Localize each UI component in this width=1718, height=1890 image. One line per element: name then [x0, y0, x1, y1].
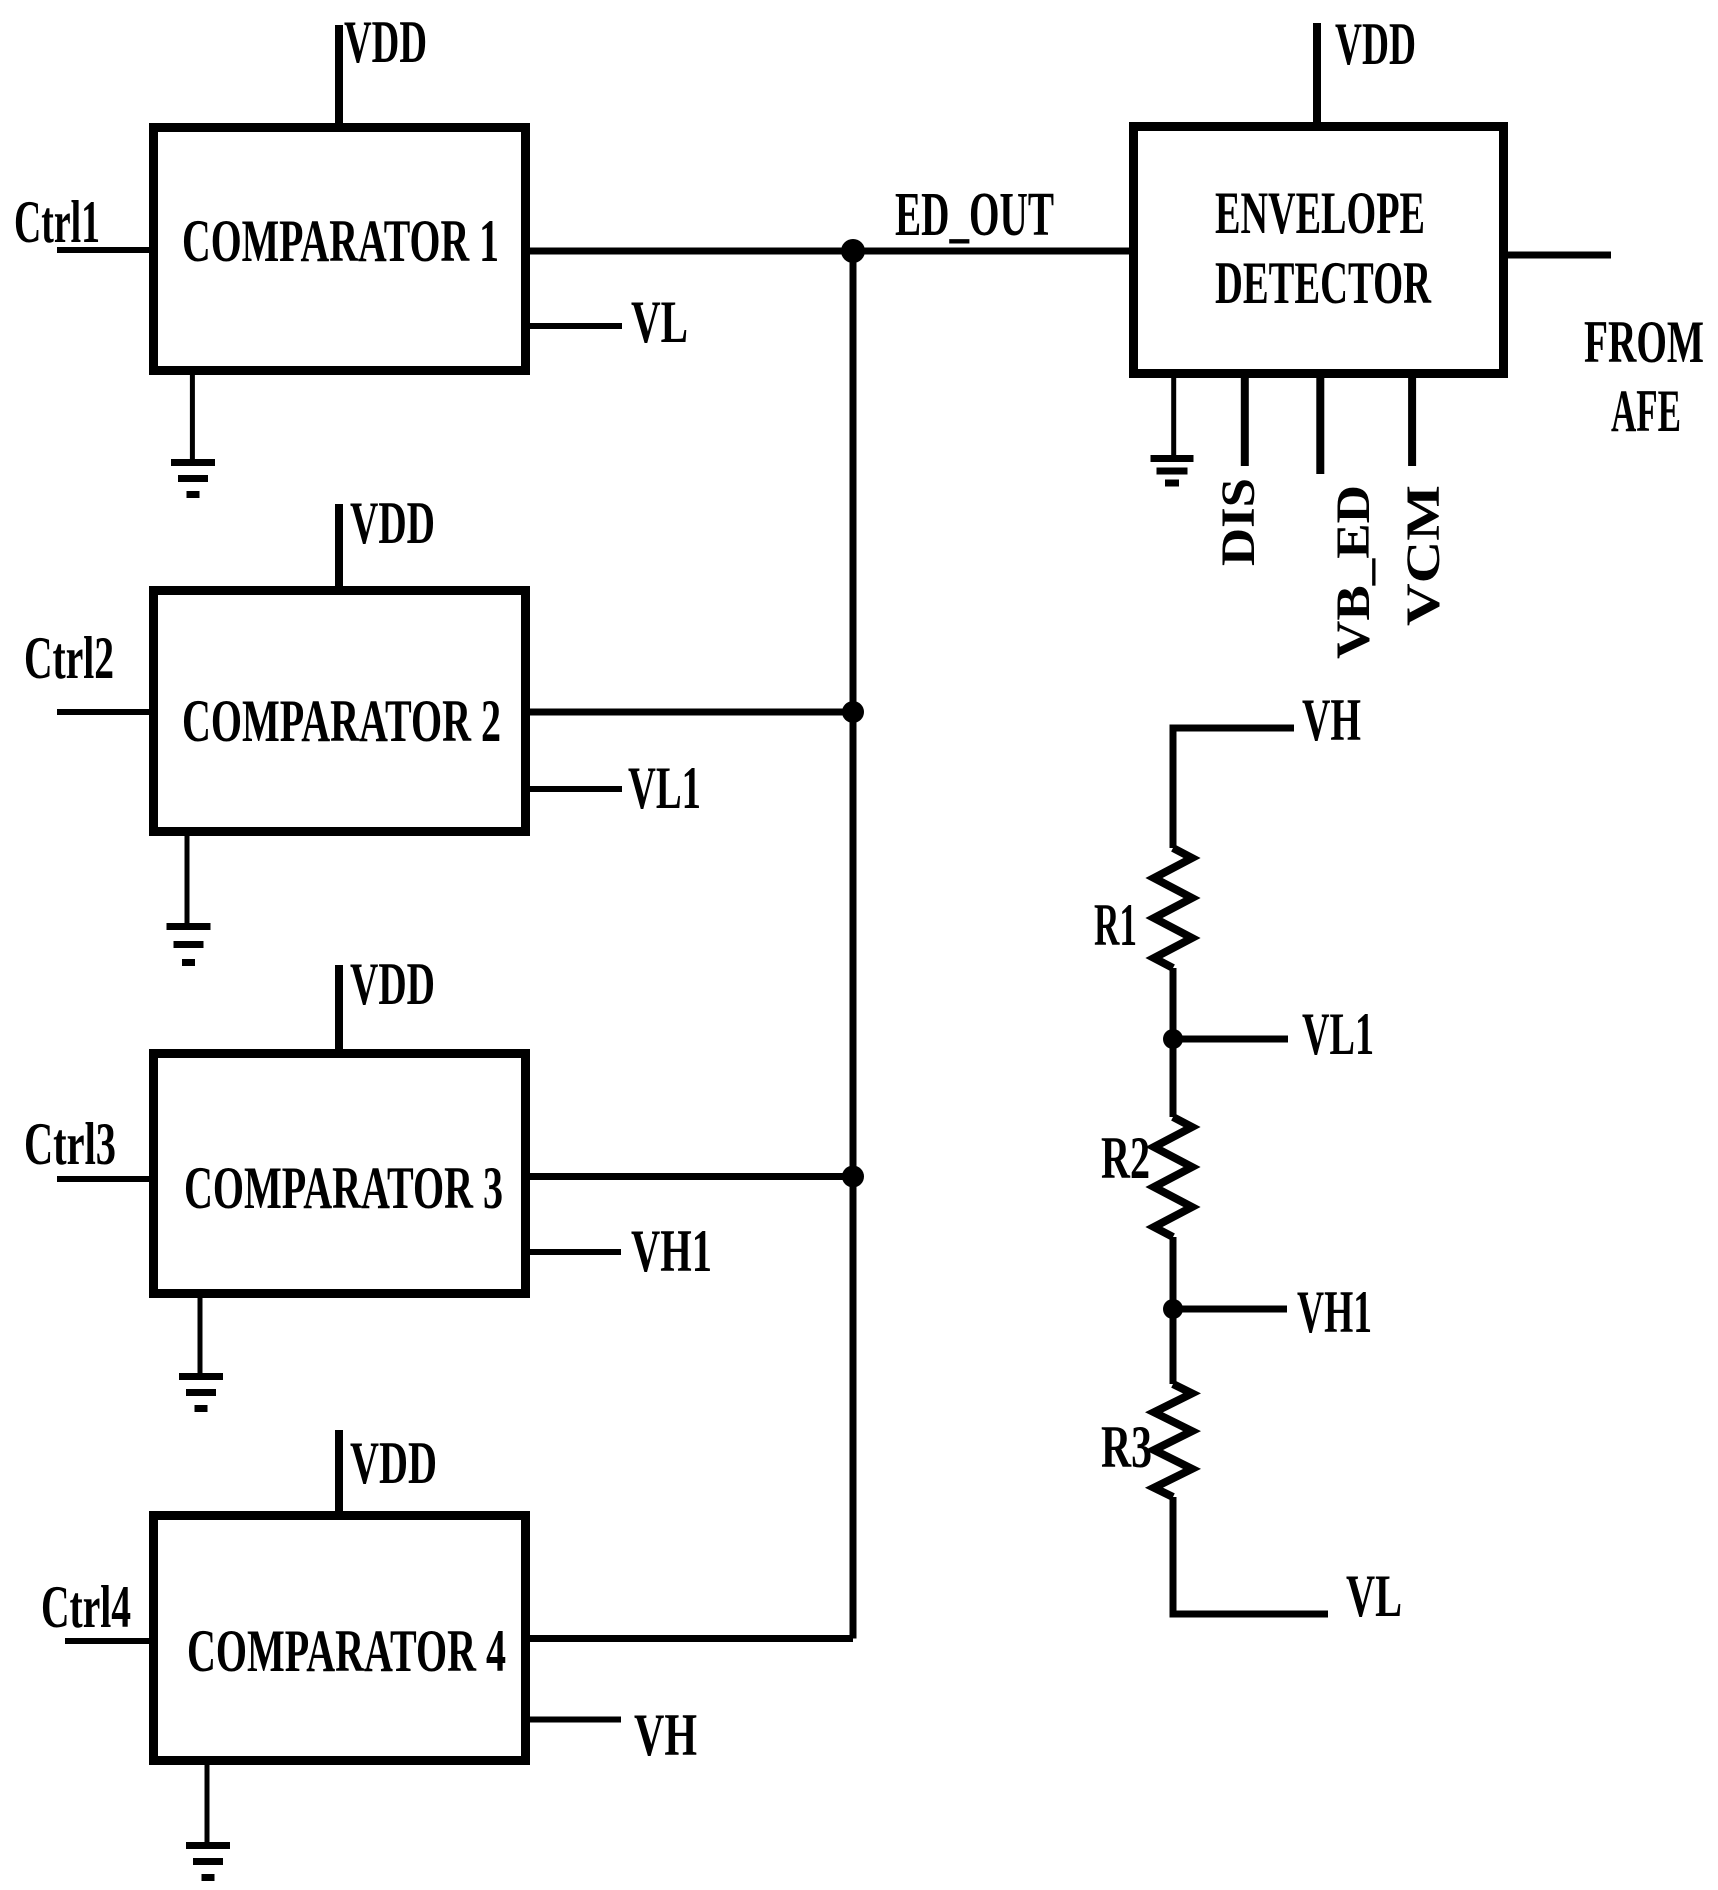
svg-text:VL: VL	[1346, 1563, 1402, 1629]
svg-text:Ctrl4: Ctrl4	[41, 1574, 131, 1640]
svg-text:ENVELOPE: ENVELOPE	[1215, 180, 1425, 246]
svg-text:VCM: VCM	[1397, 485, 1450, 626]
svg-text:ED_OUT: ED_OUT	[895, 181, 1054, 249]
svg-text:VL1: VL1	[1302, 1001, 1374, 1067]
svg-text:VH: VH	[634, 1702, 697, 1768]
svg-text:Ctrl1: Ctrl1	[14, 189, 100, 255]
svg-text:VDD: VDD	[350, 1430, 437, 1496]
svg-text:R3: R3	[1101, 1414, 1152, 1480]
svg-text:VH: VH	[1302, 687, 1361, 753]
svg-text:VL: VL	[631, 289, 688, 355]
svg-text:COMPARATOR 4: COMPARATOR 4	[187, 1618, 506, 1684]
svg-text:VDD: VDD	[344, 9, 427, 75]
svg-text:DIS: DIS	[1212, 478, 1265, 566]
svg-text:COMPARATOR 1: COMPARATOR 1	[182, 208, 499, 274]
svg-text:R2: R2	[1101, 1125, 1150, 1191]
svg-text:COMPARATOR 3: COMPARATOR 3	[184, 1155, 503, 1221]
svg-text:VDD: VDD	[1335, 11, 1416, 77]
svg-text:VDD: VDD	[350, 951, 435, 1017]
svg-text:VB_ED: VB_ED	[1327, 485, 1380, 659]
svg-text:R1: R1	[1094, 892, 1137, 958]
svg-text:Ctrl3: Ctrl3	[24, 1111, 116, 1177]
svg-text:DETECTOR: DETECTOR	[1215, 250, 1431, 316]
svg-text:VDD: VDD	[350, 490, 435, 556]
svg-text:FROM: FROM	[1584, 309, 1704, 375]
svg-text:COMPARATOR 2: COMPARATOR 2	[182, 688, 501, 754]
svg-text:VL1: VL1	[628, 755, 701, 821]
svg-text:Ctrl2: Ctrl2	[24, 625, 114, 691]
svg-text:VH1: VH1	[631, 1218, 712, 1284]
svg-text:AFE: AFE	[1611, 378, 1681, 444]
svg-text:VH1: VH1	[1297, 1279, 1372, 1345]
